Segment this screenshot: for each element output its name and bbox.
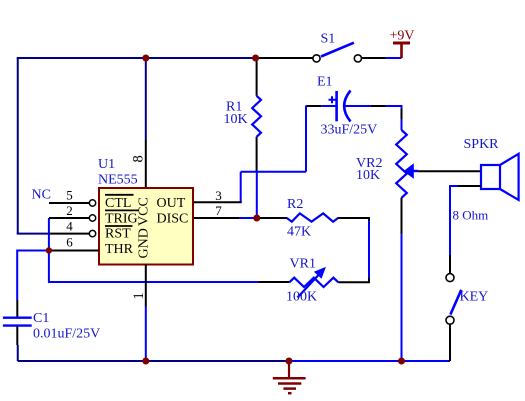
wire: THR node to C1 branch (blue) [17,251,50,301]
ground symbol [273,361,306,393]
wire: long blue wire VR1 to TRIG/THR riser [49,281,258,283]
svg-text:33uF/25V: 33uF/25V [321,123,378,138]
junction dot: rail / pin1 [142,358,149,365]
svg-text:CTL: CTL [105,196,131,211]
VR2 wiper arrowhead [404,164,413,178]
wire: KEY bottom stub to rail (black) [449,324,451,361]
wire: E1 row blue to right corner [386,105,402,107]
wire: C1 lower lead black bit [16,327,18,346]
wire: horizontal blue OUT net [241,171,306,173]
wire: E1 left lead blue [321,105,335,107]
wire: wiper to speaker (black) [418,170,481,172]
svg-text:R2: R2 [287,197,303,212]
pin 4 bubble [89,230,95,236]
wire: TRIG/THR riser blue vertical [48,218,50,283]
capacitor C1 [3,300,32,361]
wire: S1 right terminal black [362,57,386,59]
svg-text:3: 3 [215,188,222,203]
pin name TRIG with overline [105,210,139,226]
wire: bottom ground rail blue right part [289,360,450,362]
svg-text:KEY: KEY [460,290,489,305]
svg-text:2: 2 [66,203,73,218]
wire: R2-VR1 riser blue [368,221,370,278]
junction dot: top rail / R1 [252,55,259,62]
svg-text:5: 5 [66,188,73,203]
svg-text:VCC: VCC [136,197,151,226]
wire: bottom ground rail navy left part [18,360,289,362]
junction dot: rail / ground symbol [286,358,293,365]
wire: VR2 bottom to rail blue [401,234,403,361]
svg-text:6: 6 [66,235,73,250]
svg-text:RST: RST [105,227,131,242]
potentiometer VR2 zigzag (vertical) [396,130,407,198]
resistor R1 zigzag [252,96,261,137]
svg-text:8: 8 [130,155,146,162]
pin 5 stub (NC) [49,202,89,204]
wire: pin 3 OUT stub (black) [193,201,242,203]
wire: pin 1 lead blue lower part [145,307,147,362]
svg-text:47K: 47K [287,225,311,240]
VR1 wiper arrow diagonal [298,275,319,298]
wire: KEY top black stub [449,255,451,274]
wire: top rail black segment to S1 left terminal [256,57,313,59]
wire: VR2 top lead black [401,109,403,119]
wire: E1 right corner down (blue bit) [401,105,403,109]
wire: R2 right to corner (black) [337,217,369,219]
VR1 arrowhead [315,268,325,278]
wire: R1 bottom to DISC junction (blue) [256,172,258,218]
wire: C1 upper lead black bit [16,300,18,317]
wire: VR2 bottom lead black [401,198,403,234]
pin 2 stub (TRIG) [49,217,89,219]
svg-text:10K: 10K [224,112,248,127]
C1 top plate [3,317,32,319]
E1 straight plate [335,91,338,121]
wire: VR2 top lead blue [401,119,403,130]
wire: E1 row black right segment [371,105,386,107]
svg-text:GND: GND [136,228,151,258]
svg-text:1: 1 [131,292,147,299]
wire: top +9V rail (navy) from left corner to R1 tap [18,58,256,59]
wire: VR1 left black stub [258,281,289,283]
junction dot: DISC / R1 / R2 node [253,215,260,222]
wire: E1 left riser (blue) from OUT net [305,106,307,172]
svg-text:SPKR: SPKR [464,137,500,152]
svg-text:OUT: OUT [157,196,186,211]
svg-text:10K: 10K [356,168,380,183]
junction dot: THR node [46,247,52,253]
wire: E1 right lead blue [345,105,371,107]
wire: pin 8 lead black lower part into IC [145,140,147,188]
resistor R2 zigzag [287,213,338,221]
wire: C1 lower lead navy to rail [17,345,19,361]
wire: R1 top lead (black) [256,58,258,96]
wire: blue stub to +9V bar [386,57,402,59]
wire: DISC blue bit before junction [239,217,254,219]
wire: E1 row black left segment [307,105,321,107]
pin 6 stub (THR) [49,250,99,252]
svg-text:U1: U1 [98,157,115,172]
svg-text:C1: C1 [33,311,49,326]
wire: R2-VR1 corner top black bit [368,217,370,221]
switch S1 [313,43,362,62]
pin name CTL with overline [105,195,134,211]
svg-text:7: 7 [215,203,222,218]
junction dot: top rail / pin8 [142,55,149,62]
svg-text:NC: NC [32,188,51,203]
wire: horizontal to RST pin (navy) [17,233,49,235]
wire: speaker bottom corner blue [450,186,458,255]
switch KEY [446,274,461,325]
svg-text:DISC: DISC [157,211,189,226]
speaker SPKR [481,154,519,200]
svg-text:NE555: NE555 [98,173,138,188]
wire: OUT riser blue [240,172,242,203]
svg-text:TRIG: TRIG [105,211,138,226]
wire: speaker bottom black stub [458,185,481,187]
svg-text:THR: THR [105,242,134,257]
C1 bottom plate [3,324,32,326]
wire: pin 1 lead black to ground rail [145,265,147,307]
pin 2 bubble [89,215,95,221]
E1 plus sign [329,96,336,103]
pin 5 bubble [89,200,95,206]
svg-text:S1: S1 [321,32,336,47]
junction dot: rail / VR2 branch [398,358,405,365]
svg-text:100K: 100K [286,290,317,305]
IC U1 NE555 body [99,188,193,265]
potentiometer VR1 zigzag [289,278,338,287]
wire: pin 8 lead navy upper part [145,58,147,140]
E1 curved plate [344,91,350,122]
svg-text:0.01uF/25V: 0.01uF/25V [33,327,100,342]
power +9V bar symbol [393,43,410,58]
VR2 wiper shaft [413,170,418,172]
wire: pin 7 DISC stub (black) [193,217,239,219]
wire: DISC junction to R2 (black) [258,217,287,219]
pin name RST with overline [105,226,133,242]
capacitor E1 (electrolytic) [306,91,402,122]
svg-text:8 Ohm: 8 Ohm [453,208,489,223]
wire: E1 row blue corner bit [306,105,308,107]
svg-text:E1: E1 [317,75,333,90]
svg-text:VR1: VR1 [290,257,316,272]
wire: R2-VR1 corner bottom black [338,278,369,282]
wire: R1 bottom lead black to crossing [256,137,258,172]
svg-text:+9V: +9V [390,29,415,44]
wire: left vertical rail (navy) [17,58,19,234]
svg-text:4: 4 [66,218,73,233]
pin 4 stub (RST) [49,233,89,235]
